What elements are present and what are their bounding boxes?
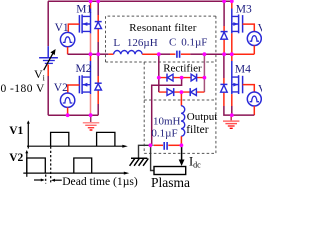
svg-text:10mH: 10mH (153, 115, 181, 127)
ground (left leg, red ground symbol) (83, 115, 100, 130)
diode D4 (antiparallel with M4) (220, 54, 231, 115)
label Plasma (151, 175, 190, 190)
waveform V2 axes (23, 153, 124, 177)
svg-text:M2: M2 (76, 63, 92, 75)
label M1 (76, 3, 92, 15)
label 0 -180 V (1, 83, 46, 95)
arrow Idc (179, 145, 185, 166)
wire M3 source (231, 33, 233, 54)
dashed box Resonant filter (106, 16, 216, 153)
waveform V1 pulses (51, 132, 115, 146)
wire M1 source (90, 33, 92, 54)
wire to Plasma load (151, 145, 154, 170)
label Idc (189, 155, 201, 170)
capacitor 0.1uF (output filter) (150, 142, 181, 150)
wire Vi bottom lead (47, 65, 49, 116)
label M3 (236, 3, 252, 15)
svg-text:V1: V1 (55, 22, 69, 34)
svg-text:V4: V4 (258, 84, 262, 96)
wire right leg bottom (232, 114, 255, 116)
label V4 (258, 84, 272, 96)
wire L-C node to C (159, 53, 176, 55)
svg-text:C: C (169, 36, 176, 48)
waveform V2 pulses (27, 158, 92, 173)
wire top rail (48, 0, 232, 2)
label V3 (258, 22, 272, 34)
label Vi (34, 67, 46, 82)
wire rectifier bottom row (159, 91, 205, 93)
dead time dashed marker (50, 147, 52, 183)
label 0.1uF (output) (151, 128, 177, 140)
waveform V1 axes (27, 123, 123, 149)
wire Vi top lead (47, 1, 49, 57)
label Output filter (186, 111, 217, 136)
wire rectifier AC input right (from C output) (203, 54, 205, 92)
diode D2 (antiparallel with M2) (95, 54, 102, 115)
diode D3 (antiparallel with M3) (221, 1, 228, 54)
svg-text:0.1µF: 0.1µF (151, 128, 177, 140)
label M4 (235, 64, 251, 76)
wire resonant output to right leg (204, 53, 254, 55)
inductor L 126uH (114, 50, 159, 54)
ground earth (hatched) (130, 158, 149, 166)
source V3 (gate drive) (243, 24, 262, 54)
svg-text:0 -180 V: 0 -180 V (1, 83, 46, 95)
svg-text:Plasma: Plasma (151, 175, 190, 190)
diode DR2 (191, 74, 197, 82)
capacitor C 0.1uF (resonant) (177, 51, 205, 58)
svg-text:V2: V2 (54, 82, 68, 94)
source V2 (gate drive) (60, 85, 79, 115)
ground (right leg, red ground symbol) (223, 115, 239, 128)
label M2 (76, 63, 92, 75)
svg-text:M3: M3 (236, 3, 252, 15)
dead time arrows (34, 179, 62, 182)
label C 0.1uF (169, 36, 207, 48)
svg-text:Resonant filter: Resonant filter (129, 22, 197, 34)
label 10mH (153, 115, 181, 127)
wire rectifier top row (159, 77, 205, 79)
source V1 (gate drive) (60, 24, 79, 54)
svg-text:Dead time (1µs): Dead time (1µs) (62, 175, 138, 188)
load Plasma box (154, 167, 186, 175)
transistor M1 (79, 1, 90, 33)
dashed box Rectifier / Output filter shared edges (144, 62, 216, 153)
label V1 (55, 22, 69, 34)
label V2 (54, 82, 68, 94)
diode DR1 (167, 74, 173, 82)
svg-text:L: L (113, 37, 120, 49)
wire M4 source (231, 94, 233, 115)
source Vi (variable DC source battery symbol) (39, 49, 58, 70)
svg-text:V2: V2 (9, 152, 23, 164)
svg-text:126µH: 126µH (127, 37, 158, 49)
svg-text:Output: Output (187, 111, 218, 123)
label Dead time (1us) (62, 175, 138, 188)
wire rectifier DC- return (152, 78, 182, 146)
wire to earth ground (139, 145, 151, 157)
label L 126uH (113, 37, 157, 49)
wire M2 source (90, 94, 92, 115)
dead time tick (45, 175, 47, 184)
svg-text:V1: V1 (9, 125, 23, 137)
diode D1 (antiparallel with M1) (95, 1, 102, 54)
wire left leg midpoint node (68, 53, 114, 55)
wire rectifier AC input left (from L-C node) (158, 54, 160, 92)
svg-text:Rectifier: Rectifier (163, 62, 202, 74)
label Rectifier (163, 62, 202, 74)
wire bottom left leg (48, 114, 98, 116)
svg-text:filter: filter (186, 124, 209, 136)
diode DR3 (167, 88, 174, 96)
waveform V1 label (9, 125, 23, 137)
svg-text:M1: M1 (76, 3, 92, 15)
transistor M4 (232, 54, 243, 94)
source V4 (gate drive) (243, 85, 262, 116)
svg-text:0.1µF: 0.1µF (181, 36, 207, 48)
waveform V2 label (9, 152, 23, 164)
label Resonant filter (129, 22, 197, 34)
svg-text:V3: V3 (258, 22, 262, 34)
svg-text:M4: M4 (235, 64, 251, 76)
transistor M3 (232, 1, 243, 33)
inductor 10mH (output filter) (181, 92, 185, 145)
diode DR4 (190, 88, 196, 96)
transistor M2 (79, 54, 90, 94)
